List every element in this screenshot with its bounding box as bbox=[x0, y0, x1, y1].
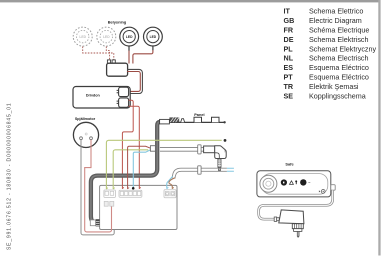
svg-text:Safe: Safe bbox=[285, 161, 294, 166]
legend row DE bbox=[284, 35, 369, 44]
svg-text:Esquema Eléctrico: Esquema Eléctrico bbox=[309, 73, 369, 82]
svg-text:FR: FR bbox=[284, 25, 294, 34]
red wire driver to terminal 5 bbox=[129, 106, 140, 188]
safe body bbox=[257, 171, 331, 197]
safe triangle indicator bbox=[290, 181, 294, 185]
mains cord ferrite bbox=[198, 145, 201, 154]
svg-text:IT: IT bbox=[284, 7, 291, 16]
terminal block right bbox=[164, 190, 176, 198]
svg-text:TR: TR bbox=[284, 82, 294, 91]
legend row PT bbox=[284, 73, 369, 82]
legend row TR bbox=[284, 82, 359, 91]
lighting connector bbox=[107, 63, 128, 76]
svg-text:LED: LED bbox=[150, 35, 157, 39]
control box bbox=[100, 185, 177, 229]
mains plug body bbox=[204, 146, 227, 159]
red wire driver to terminal 1 bbox=[122, 100, 133, 188]
damper motor bbox=[73, 122, 98, 147]
safe inner panel bbox=[262, 174, 328, 195]
green wire 2 to crimp bbox=[113, 150, 148, 189]
frame top bar bbox=[0, 0, 379, 2]
panel bump 2 bbox=[194, 117, 202, 122]
cable connector to driver (outer gray wire) bbox=[127, 69, 142, 93]
control box left connector bbox=[90, 219, 99, 226]
optional LED lamp (dashed) 1 bbox=[73, 27, 92, 46]
green wire 1 with probe dot bbox=[106, 139, 226, 189]
legend row PL bbox=[284, 44, 377, 53]
svg-text:DE: DE bbox=[284, 35, 294, 44]
svg-text:Schéma Electrique: Schéma Electrique bbox=[309, 25, 369, 34]
legend row SE bbox=[284, 92, 366, 101]
lighting connector pins bbox=[107, 60, 115, 64]
svg-text:LED: LED bbox=[79, 35, 86, 39]
safe cable tab bbox=[331, 185, 335, 191]
twisted pair brown bbox=[169, 178, 175, 189]
svg-text:Spjällmotor: Spjällmotor bbox=[75, 117, 96, 121]
svg-text:LED: LED bbox=[126, 35, 133, 39]
legend row GB bbox=[284, 16, 362, 25]
svg-text:GB: GB bbox=[284, 16, 295, 25]
svg-text:ES: ES bbox=[284, 63, 294, 72]
blue wire terminal to crimp bbox=[133, 150, 151, 189]
svg-text:Schemat Elektryczny: Schemat Elektryczny bbox=[309, 44, 377, 53]
svg-text:Schema Elettrico: Schema Elettrico bbox=[309, 7, 363, 16]
legend row FR bbox=[284, 25, 370, 34]
frame right bar bbox=[378, 0, 380, 256]
svg-text:LED: LED bbox=[103, 35, 110, 39]
svg-text:NL: NL bbox=[284, 54, 294, 63]
safe button 2 bbox=[300, 179, 306, 185]
svg-text:Kopplingsschema: Kopplingsschema bbox=[309, 92, 366, 101]
driver box Drivdon bbox=[73, 87, 130, 109]
power adapter body bbox=[279, 210, 304, 224]
red wire terminal to crimp bbox=[128, 146, 151, 189]
svg-text:Schema Elektrisch: Schema Elektrisch bbox=[309, 35, 369, 44]
svg-text:Electric Diagram: Electric Diagram bbox=[309, 16, 362, 25]
svg-text:Schema Electrisch: Schema Electrisch bbox=[309, 54, 369, 63]
motor red wire bbox=[85, 140, 112, 232]
svg-text:SE_991.0676.512 - 180830 - D00: SE_991.0676.512 - 180830 - D000000006845… bbox=[7, 103, 13, 250]
dashed wire from optional LED 1 bbox=[83, 47, 114, 60]
driver output connector bbox=[117, 87, 129, 96]
panel strip bbox=[169, 121, 226, 123]
safe cord blue wire ends bbox=[227, 168, 234, 171]
legend row ES bbox=[284, 63, 369, 72]
adapter plug section bbox=[292, 224, 303, 232]
cable connector to driver (inner red wire) bbox=[127, 72, 140, 92]
svg-text:SE: SE bbox=[284, 92, 294, 101]
crimp sleeve bbox=[150, 146, 155, 152]
wire LED2 to connector bbox=[133, 46, 153, 63]
wire end hooks bbox=[106, 188, 173, 189]
driver input connector bbox=[117, 98, 129, 107]
mains cord bbox=[160, 148, 204, 152]
safe cord ferrite bbox=[198, 166, 201, 174]
svg-text:Panel: Panel bbox=[194, 112, 204, 117]
safe supply cord bbox=[172, 168, 227, 178]
motor gray wire bbox=[81, 140, 114, 235]
safe corner icon bbox=[319, 190, 325, 194]
thick cable panel to control box bbox=[91, 122, 161, 223]
panel bump 1 bbox=[181, 119, 185, 123]
optional LED lamp (dashed) 2 bbox=[97, 27, 116, 46]
terminal block left bbox=[104, 190, 116, 197]
svg-text:Drivdon: Drivdon bbox=[86, 94, 101, 98]
legend row NL bbox=[284, 54, 369, 63]
dashed wire from optional LED 2 bbox=[106, 47, 109, 60]
safe small dash bbox=[308, 181, 310, 183]
safe key symbol bbox=[295, 180, 297, 184]
panel plug bbox=[160, 119, 170, 124]
legend bbox=[284, 7, 377, 101]
panel connector hatched bbox=[169, 117, 179, 122]
svg-text:Esquema Eléctrico: Esquema Eléctrico bbox=[309, 63, 369, 72]
fuse holder squares bbox=[104, 201, 114, 206]
terminal block middle bbox=[119, 190, 142, 197]
mains plug pin bbox=[218, 159, 221, 171]
panel bump 3 bbox=[212, 117, 220, 122]
wire LED1 to connector bbox=[128, 46, 130, 63]
adapter barrel connector bbox=[274, 217, 279, 221]
safe dial knob bbox=[260, 175, 277, 192]
svg-text:PL: PL bbox=[284, 44, 294, 53]
svg-text:PT: PT bbox=[284, 73, 294, 82]
adapter cable bbox=[259, 190, 333, 219]
twisted pair blue bbox=[167, 176, 173, 188]
legend row IT bbox=[284, 7, 364, 16]
svg-text:Elektrik Şemasi: Elektrik Şemasi bbox=[309, 82, 359, 91]
safe button 1 bbox=[281, 179, 287, 185]
adapter pin bbox=[297, 231, 299, 237]
LED lamp 2 bbox=[144, 27, 163, 46]
svg-text:Belysning: Belysning bbox=[108, 20, 127, 25]
blue wire junction dot bbox=[132, 187, 135, 190]
LED lamp 1 bbox=[120, 27, 139, 46]
